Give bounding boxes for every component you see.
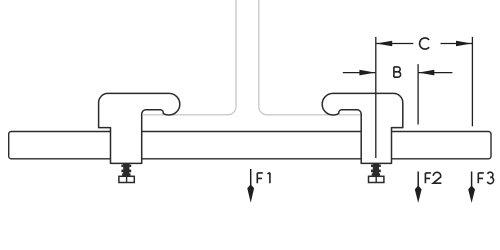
beam (flat bar) xyxy=(9,132,491,159)
right clamp body (mirror of left about x=251) xyxy=(322,93,403,163)
left clamp body xyxy=(99,93,180,163)
right clamp screw threads xyxy=(371,163,381,176)
dimension B leader right with arrowhead xyxy=(418,70,452,76)
label C xyxy=(420,38,430,49)
left clamp screw threads xyxy=(121,163,131,176)
force arrow F1 xyxy=(247,169,254,203)
support post (light gray, behind) xyxy=(143,0,361,115)
label F3 xyxy=(478,172,493,183)
right clamp bolt head xyxy=(369,176,384,182)
label F2 xyxy=(425,172,441,183)
extension line for B right xyxy=(417,64,419,124)
force arrow F2 xyxy=(415,172,422,203)
label F1 xyxy=(257,173,270,184)
dimension C leader right with arrowhead xyxy=(441,41,473,47)
extension line for C right xyxy=(471,37,473,126)
dimension C leader left with arrowhead xyxy=(376,41,413,47)
extension line at right clamp centerline xyxy=(375,37,377,158)
force arrow F3 xyxy=(468,172,475,203)
left clamp bolt head xyxy=(119,176,134,182)
dimension B leader left with arrowhead xyxy=(343,70,376,76)
label B xyxy=(394,67,401,77)
